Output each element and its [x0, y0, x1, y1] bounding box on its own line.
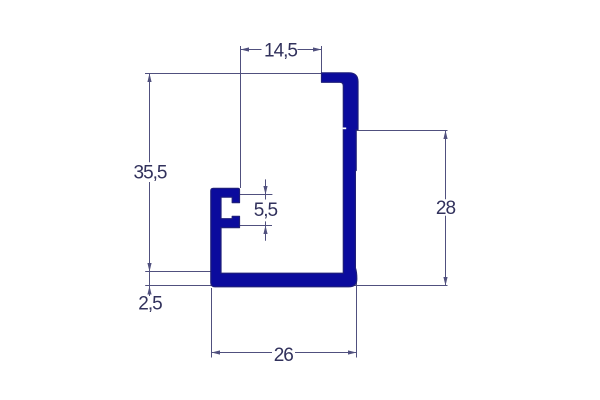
- svg-text:35,5: 35,5: [134, 163, 167, 184]
- svg-text:14,5: 14,5: [264, 40, 297, 61]
- svg-text:28: 28: [436, 198, 456, 219]
- svg-text:2,5: 2,5: [138, 294, 162, 315]
- svg-text:26: 26: [274, 345, 294, 366]
- svg-text:5,5: 5,5: [254, 200, 278, 221]
